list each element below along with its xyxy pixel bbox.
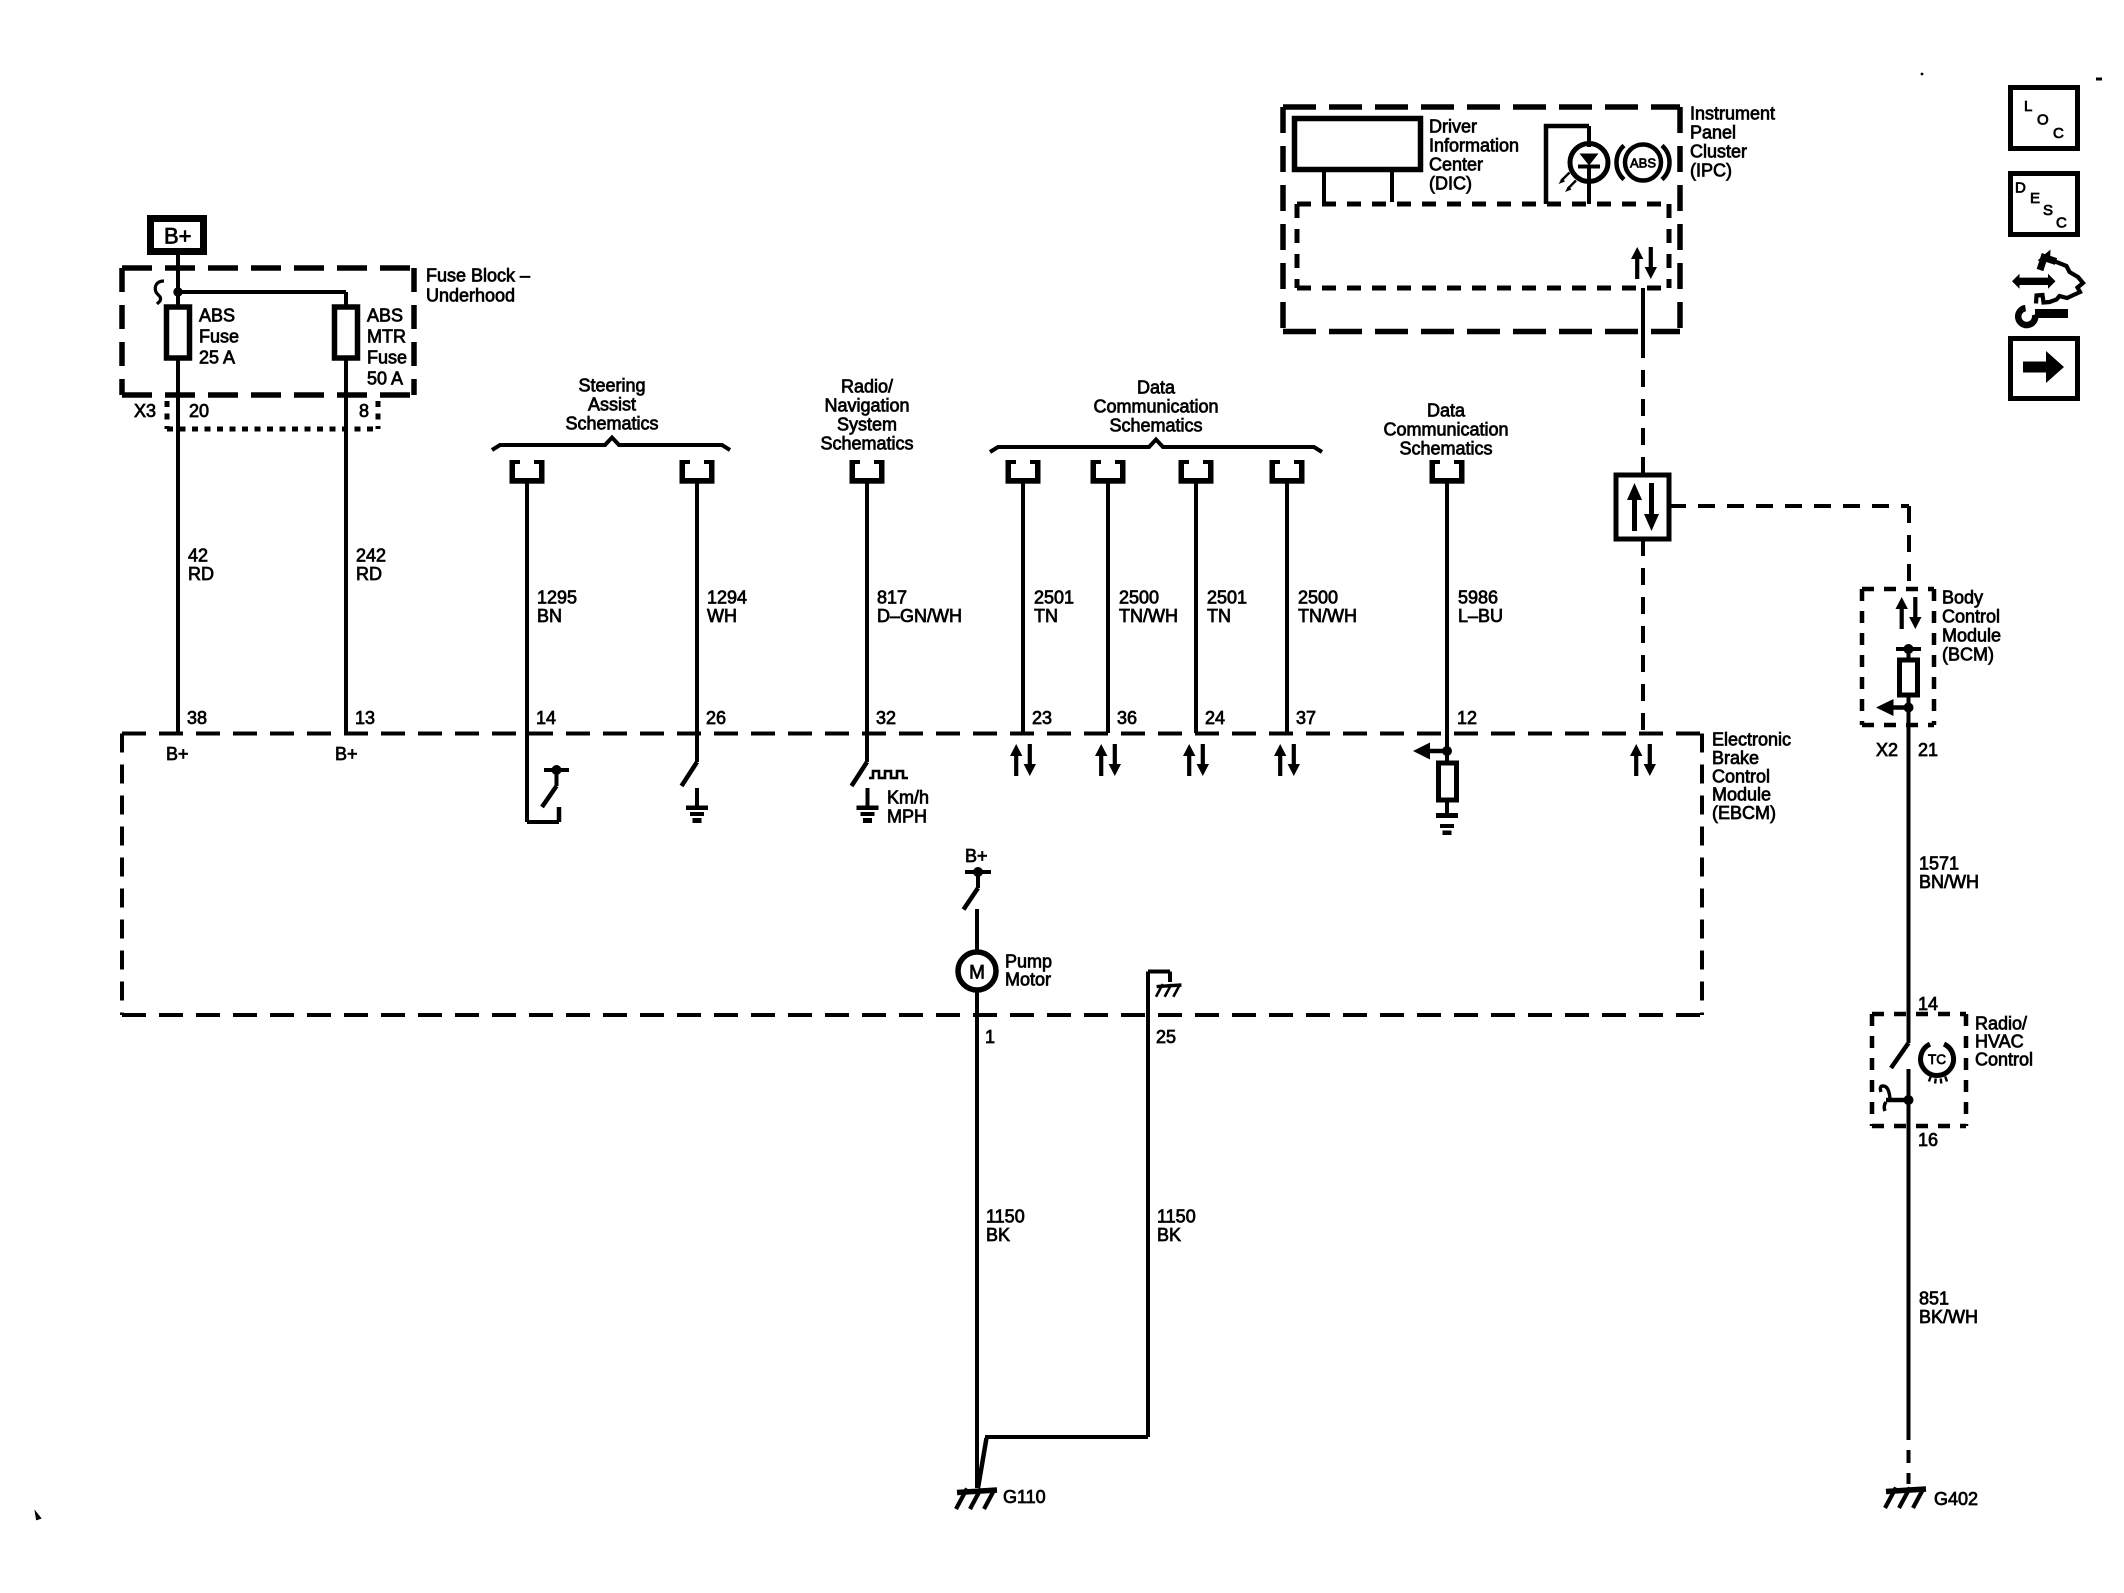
svg-text:Cluster: Cluster [1690, 142, 1747, 162]
label 2501 TN [1034, 588, 1074, 627]
svg-text:Instrument: Instrument [1690, 104, 1775, 124]
svg-text:G110: G110 [1003, 1487, 1046, 1507]
svg-text:24: 24 [1205, 708, 1225, 728]
svg-text:BK: BK [1157, 1225, 1181, 1245]
pump motor feed switch contact [964, 867, 992, 910]
wire 2501 TN (to EBCM pin 24) [1194, 483, 1198, 733]
label 851 BK/WH [1919, 1289, 1978, 1328]
wire pump motor to EBCM pin 1 [975, 990, 979, 1437]
svg-text:42: 42 [188, 546, 208, 566]
wire 1295 BN (to EBCM pin 14) [525, 483, 529, 733]
fuse F1 ABS Fuse 25 A symbol [167, 307, 190, 358]
pull-up resistor inside BCM [1900, 660, 1918, 695]
svg-text:8: 8 [359, 401, 369, 421]
svg-text:851: 851 [1919, 1289, 1949, 1309]
svg-text:Control: Control [1712, 766, 1770, 786]
svg-text:Body: Body [1942, 588, 1983, 608]
svg-text:M: M [969, 963, 985, 984]
bidirectional serial data arrows at pin 37 [1274, 744, 1300, 776]
svg-text:Schematics: Schematics [820, 434, 913, 454]
label X3 [134, 401, 156, 421]
svg-text:Steering: Steering [578, 376, 645, 396]
svg-text:BK: BK [986, 1225, 1010, 1245]
svg-text:20: 20 [189, 401, 209, 421]
svg-text:1295: 1295 [537, 588, 577, 608]
wire 1571 BN/WH (BCM to radio/HVAC) [1907, 725, 1911, 1014]
bidirectional serial data arrows at pin 36 [1095, 744, 1121, 776]
contact bar with dot inside BCM [1896, 644, 1921, 660]
svg-text:Schematics: Schematics [565, 414, 658, 434]
ground symbol inside EBCM below resistor [1436, 813, 1458, 835]
wire 242 RD (fuse F2 to EBCM pin 13) [344, 358, 348, 733]
label Pump Motor [1005, 952, 1052, 990]
DIC leg wires [1324, 170, 1392, 202]
serial data arrow (left) at pin 12 [1413, 743, 1447, 760]
svg-text:1571: 1571 [1919, 854, 1959, 874]
svg-text:TC: TC [1928, 1052, 1946, 1067]
diagnostic navigation icon [2012, 250, 2083, 326]
node B+ label at pump motor [965, 846, 988, 866]
svg-text:1294: 1294 [707, 588, 747, 608]
svg-text:Assist: Assist [588, 395, 636, 415]
ABS indicator lamp (LED) [1570, 144, 1608, 182]
label 1571 BN/WH [1919, 854, 1979, 893]
svg-text:5986: 5986 [1458, 588, 1498, 608]
next-page arrow legend box [2011, 339, 2078, 399]
svg-text:1150: 1150 [986, 1207, 1025, 1227]
label 1150 BK (pin 25) [1157, 1207, 1196, 1246]
svg-text:2500: 2500 [1119, 588, 1159, 608]
wire IPC serial data out [1641, 288, 1645, 341]
LED emission arrows [1559, 173, 1577, 193]
svg-text:1: 1 [985, 1027, 995, 1047]
bidirectional serial data arrows inside EBCM [1630, 744, 1656, 776]
svg-text:32: 32 [876, 708, 896, 728]
label 2501 TN (second) [1207, 588, 1247, 627]
pin 21 label (BCM) [1918, 740, 1938, 760]
connector data comm wire 2500 (pin 37) [1270, 460, 1305, 484]
pin 24 label (EBCM) [1205, 708, 1225, 728]
svg-text:36: 36 [1117, 708, 1137, 728]
wire 2500 TN/WH (to EBCM pin 37) [1285, 483, 1289, 733]
svg-text:D: D [2015, 180, 2026, 197]
ground symbol inside EBCM below pin 32 [857, 788, 879, 823]
label X2 (BCM connector) [1876, 740, 1898, 760]
connector data comm wire 2500 (pin 36) [1091, 460, 1126, 484]
svg-text:14: 14 [1918, 994, 1938, 1014]
wire branch to ABS MTR fuse [178, 292, 346, 307]
svg-text:MTR: MTR [367, 327, 406, 347]
lower contact with dot inside radio/HVAC [1880, 1069, 1913, 1126]
svg-text:MPH: MPH [887, 807, 927, 827]
svg-text:Panel: Panel [1690, 123, 1736, 143]
scan speck top right [1921, 73, 2102, 81]
svg-text:Electronic: Electronic [1712, 730, 1791, 750]
svg-text:(IPC): (IPC) [1690, 161, 1732, 181]
svg-text:242: 242 [356, 546, 386, 566]
pin 32 label (EBCM) [876, 708, 896, 728]
svg-text:Radio/: Radio/ [1975, 1014, 2027, 1034]
label Steering Assist Schematics [565, 376, 658, 434]
pin 36 label (EBCM) [1117, 708, 1137, 728]
svg-text:S: S [2043, 202, 2053, 219]
svg-text:RD: RD [356, 564, 382, 584]
pin 38 label [187, 708, 207, 728]
svg-text:25 A: 25 A [199, 348, 235, 368]
label 2500 TN/WH [1119, 588, 1178, 627]
svg-text:BN: BN [537, 606, 562, 626]
svg-text:Control: Control [1942, 607, 2000, 627]
label Driver Information Center (DIC) [1429, 117, 1519, 194]
connector data comm wire 5986 (pin 12) [1430, 460, 1465, 484]
svg-text:E: E [2030, 190, 2040, 207]
svg-text:Navigation: Navigation [824, 396, 909, 416]
svg-text:Module: Module [1942, 626, 2001, 646]
pin 23 label (EBCM) [1032, 708, 1052, 728]
svg-text:X3: X3 [134, 401, 156, 421]
svg-text:817: 817 [877, 588, 907, 608]
svg-text:Control: Control [1975, 1050, 2033, 1070]
svg-text:ABS: ABS [199, 306, 235, 326]
connector to steering assist (wire 1295) [510, 460, 545, 484]
pin 1 label (EBCM pump) [985, 1027, 995, 1047]
wire resistor to junction inside BCM [1907, 695, 1911, 725]
label 42 RD [188, 546, 214, 585]
dashed wire serial box to BCM (vertical) [1907, 506, 1911, 589]
svg-text:B+: B+ [965, 846, 988, 866]
svg-text:HVAC: HVAC [1975, 1032, 2024, 1052]
wire inside EBCM pin 12 to resistor [1445, 733, 1449, 764]
svg-text:2501: 2501 [1034, 588, 1074, 608]
label Radio/ HVAC Control [1975, 1014, 2033, 1070]
svg-text:2500: 2500 [1298, 588, 1338, 608]
svg-text:L–BU: L–BU [1458, 606, 1503, 626]
svg-text:D–GN/WH: D–GN/WH [877, 606, 962, 626]
pump motor M circle [958, 952, 996, 990]
internal ground branch of pump motor [1148, 972, 1181, 997]
pin 20 label [189, 401, 209, 421]
scan speck bottom left [36, 1513, 40, 1519]
DESC legend box [2011, 174, 2078, 235]
label Instrument Panel Cluster (IPC) [1690, 104, 1775, 181]
svg-text:O: O [2037, 112, 2049, 129]
svg-text:21: 21 [1918, 740, 1938, 760]
svg-text:BN/WH: BN/WH [1919, 872, 1979, 892]
svg-text:Information: Information [1429, 136, 1519, 156]
wire 2500 TN/WH (to EBCM pin 36) [1106, 483, 1110, 733]
svg-text:14: 14 [536, 708, 556, 728]
switch inside EBCM at pin 14 [527, 733, 569, 822]
svg-text:B+: B+ [166, 744, 189, 764]
label 1295 BN [537, 588, 577, 627]
connector X3 of fuse block (dotted) [167, 401, 378, 429]
svg-text:26: 26 [706, 708, 726, 728]
dashed wire to ground G402 [1907, 1427, 1911, 1484]
svg-text:TN: TN [1034, 606, 1058, 626]
svg-text:Schematics: Schematics [1109, 416, 1202, 436]
termination resistor inside EBCM [1439, 763, 1457, 800]
switch blade inside EBCM at pin 32 [852, 733, 868, 786]
junction dot at pin 12 net [1442, 746, 1452, 756]
label 1294 WH [707, 588, 747, 627]
svg-text:Brake: Brake [1712, 748, 1759, 768]
pin 16 label (radio/HVAC) [1918, 1130, 1938, 1150]
ground symbol inside EBCM below pin 26 [686, 788, 708, 823]
label 242 RD [356, 546, 386, 585]
dashed wire serial box to BCM (horizontal) [1669, 504, 1909, 508]
serial data arrow (left) inside BCM [1876, 699, 1909, 716]
brace for data communication wires [990, 440, 1322, 453]
svg-text:TN: TN [1207, 606, 1231, 626]
label 1150 BK (pin 1) [986, 1207, 1025, 1246]
wire 851 BK/WH (radio/HVAC to ground) [1907, 1126, 1911, 1427]
wire switch to pump motor [975, 909, 979, 952]
svg-text:RD: RD [188, 564, 214, 584]
wire B+ feed into fuse block (x=178) [176, 255, 180, 307]
pin 14 label (EBCM) [536, 708, 556, 728]
driver information center display (DIC) [1295, 119, 1421, 170]
electronic brake control module dashed box [122, 734, 1702, 1016]
pin 25 label (EBCM pump ground) [1156, 1027, 1176, 1047]
svg-text:Fuse: Fuse [199, 327, 239, 347]
fuse F2 ABS MTR Fuse 50 A symbol [335, 307, 358, 358]
svg-text:Driver: Driver [1429, 117, 1477, 137]
svg-text:50 A: 50 A [367, 369, 403, 389]
svg-text:B+: B+ [164, 224, 192, 249]
pin 14 label (radio/HVAC) [1918, 994, 1938, 1014]
svg-text:Km/h: Km/h [887, 788, 929, 808]
label 2500 TN/WH (second) [1298, 588, 1357, 627]
svg-text:Data: Data [1137, 378, 1176, 398]
svg-text:Center: Center [1429, 155, 1483, 175]
svg-text:Data: Data [1427, 401, 1466, 421]
instrument panel cluster dashed box [1283, 107, 1680, 332]
junction dot on B+ bus [173, 287, 182, 296]
wire to ground G110 (diagonal) [978, 1438, 987, 1488]
wire joining pump grounds [985, 1435, 1148, 1439]
svg-text:X2: X2 [1876, 740, 1898, 760]
label Data Communication Schematics (single) [1383, 401, 1508, 459]
IPC internal dashed box (cluster circuitry) [1297, 204, 1669, 288]
svg-text:B+: B+ [335, 744, 358, 764]
svg-text:C: C [2056, 215, 2067, 232]
pin 12 label (EBCM) [1457, 708, 1477, 728]
svg-text:Communication: Communication [1383, 420, 1508, 440]
pin 37 label (EBCM) [1296, 708, 1316, 728]
svg-text:12: 12 [1457, 708, 1477, 728]
label Radio/Navigation System Schematics [820, 377, 913, 454]
svg-text:Underhood: Underhood [426, 286, 515, 306]
label ABS MTR Fuse 50 A [367, 306, 407, 389]
label Data Communication Schematics (group) [1093, 378, 1218, 436]
pulse signal symbol (VSS square wave) [869, 771, 908, 778]
TC telltale symbol inside radio/HVAC [1921, 1044, 1954, 1083]
label Body Control Module (BCM) [1942, 588, 2001, 665]
label G402 [1934, 1489, 1978, 1509]
svg-text:ABS: ABS [367, 306, 403, 326]
svg-text:(DIC): (DIC) [1429, 174, 1472, 194]
wire pump motor ground (pin 25) [1146, 972, 1150, 1438]
connector to radio/navigation (wire 817) [850, 460, 885, 484]
power node B+ (battery positive) box [151, 219, 204, 252]
brace for steering assist wires [492, 438, 730, 451]
svg-text:Radio/: Radio/ [841, 377, 893, 397]
svg-text:1150: 1150 [1157, 1207, 1196, 1227]
switch blade inside radio/HVAC [1891, 1014, 1909, 1068]
node B+ label inside EBCM at pin 13 [335, 744, 358, 764]
svg-text:TN/WH: TN/WH [1298, 606, 1357, 626]
bidirectional serial data arrows inside IPC [1631, 247, 1657, 279]
splice curl on B+ bus [155, 281, 164, 304]
serial data communication box (gateway) [1616, 475, 1669, 539]
svg-text:L: L [2024, 98, 2032, 115]
ABS indicator lamp bracket wire [1546, 126, 1589, 204]
svg-text:BK/WH: BK/WH [1919, 1307, 1978, 1327]
svg-text:23: 23 [1032, 708, 1052, 728]
pin 13 label [355, 708, 375, 728]
svg-text:(EBCM): (EBCM) [1712, 803, 1776, 823]
label Fuse Block - Underhood [426, 266, 530, 306]
junction dot inside BCM [1904, 703, 1914, 713]
wire pump motor down to G110 [975, 1437, 979, 1488]
svg-text:38: 38 [187, 708, 207, 728]
label 5986 L-BU [1458, 588, 1503, 627]
svg-text:Module: Module [1712, 785, 1771, 805]
wire 817 D-GN/WH (to EBCM pin 32) [865, 483, 869, 733]
svg-text:Pump: Pump [1005, 952, 1052, 972]
bidirectional serial data arrows at pin 24 [1183, 744, 1209, 776]
svg-text:ABS: ABS [1630, 156, 1656, 171]
svg-text:13: 13 [355, 708, 375, 728]
svg-text:C: C [2053, 125, 2064, 142]
radio/HVAC control dashed box [1872, 1014, 1966, 1126]
svg-text:16: 16 [1918, 1130, 1938, 1150]
pin 8 label [359, 401, 369, 421]
dashed wire serial box to EBCM [1641, 539, 1645, 733]
wire 5986 L-BU (to EBCM pin 12) [1445, 483, 1449, 733]
bidirectional serial data arrows at pin 23 [1010, 744, 1036, 776]
label Km/h MPH [887, 788, 929, 827]
body control module dashed box [1862, 589, 1934, 725]
connector data comm wire 2501 (pin 24) [1179, 460, 1214, 484]
svg-text:WH: WH [707, 606, 737, 626]
svg-text:Motor: Motor [1005, 970, 1051, 990]
label Electronic Brake Control Module (EBCM) [1712, 730, 1791, 824]
bidirectional serial data arrows inside BCM [1896, 597, 1922, 629]
label ABS Fuse 25 A [199, 306, 239, 368]
svg-text:2501: 2501 [1207, 588, 1247, 608]
switch blade inside EBCM at pin 26 [682, 733, 698, 786]
connector data comm wire 2501 (pin 23) [1006, 460, 1041, 484]
svg-text:System: System [837, 415, 897, 435]
wire resistor to ground [1445, 800, 1449, 814]
svg-text:Fuse Block –: Fuse Block – [426, 266, 530, 286]
label 817 D-GN/WH [877, 588, 962, 627]
svg-text:Fuse: Fuse [367, 348, 407, 368]
svg-text:25: 25 [1156, 1027, 1176, 1047]
LOC legend box [2011, 88, 2078, 149]
svg-text:G402: G402 [1934, 1489, 1978, 1509]
dashed wire IPC to serial data box [1641, 341, 1645, 475]
wire 1294 WH (to EBCM pin 26) [695, 483, 699, 733]
node B+ label inside EBCM at pin 38 [166, 744, 189, 764]
svg-text:TN/WH: TN/WH [1119, 606, 1178, 626]
svg-text:Schematics: Schematics [1399, 439, 1492, 459]
fuse block underhood dashed box [122, 268, 414, 395]
svg-text:Communication: Communication [1093, 397, 1218, 417]
connector to steering assist (wire 1294) [680, 460, 715, 484]
wire 42 RD (fuse F1 to EBCM pin 38) [176, 358, 180, 733]
svg-text:37: 37 [1296, 708, 1316, 728]
pin 26 label (EBCM) [706, 708, 726, 728]
ground G402 symbol [1885, 1488, 1926, 1509]
svg-text:(BCM): (BCM) [1942, 645, 1994, 665]
ground G110 symbol [956, 1489, 997, 1510]
wire 2501 TN (to EBCM pin 23) [1021, 483, 1025, 733]
label G110 [1003, 1487, 1046, 1507]
ABS telltale symbol [1616, 145, 1669, 181]
